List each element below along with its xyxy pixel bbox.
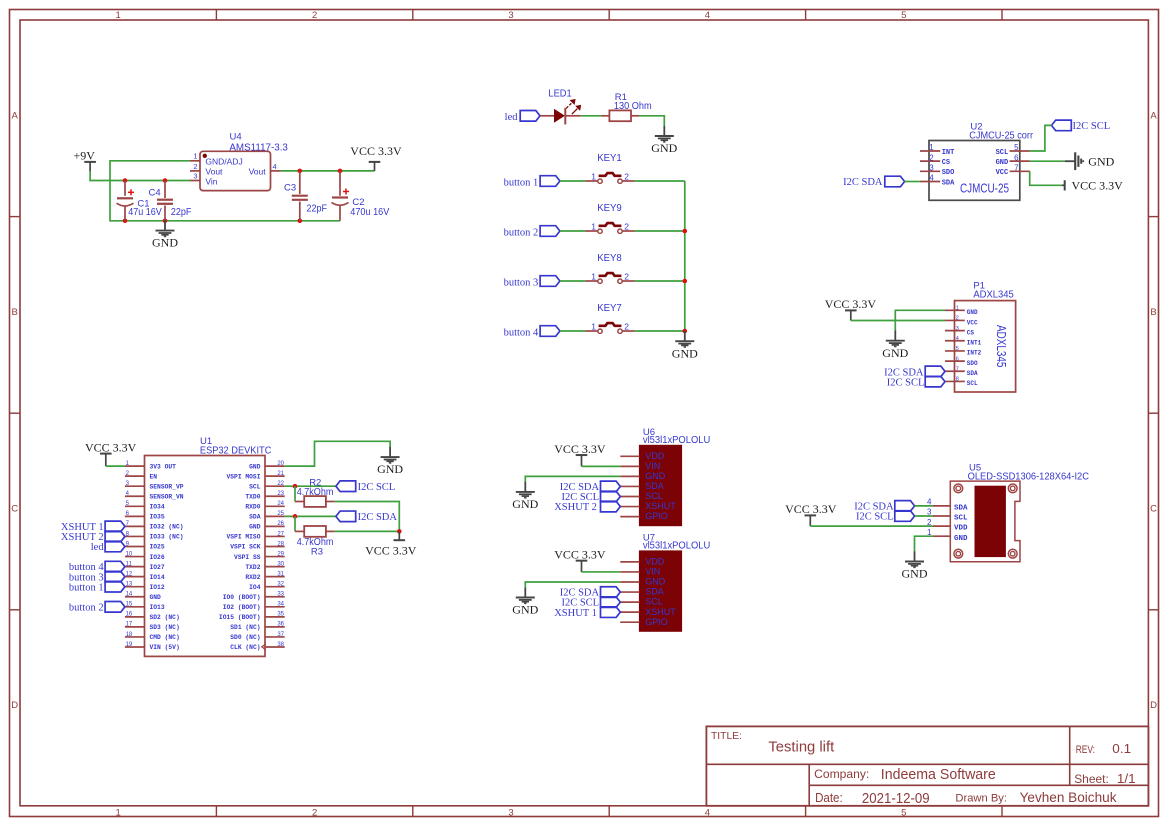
input flag led (U1) — [105, 541, 125, 552]
node pull-up VCC junction — [397, 529, 402, 534]
U5 pin 3 SCL — [927, 508, 968, 523]
U1 pin 17 SD3 (NC) — [125, 622, 180, 631]
U6 pin XSHUT — [620, 501, 676, 511]
P1 pin 4 INT1 — [945, 336, 982, 347]
wire I2C SCL to U2 pin 5 — [1030, 125, 1052, 151]
svg-text:SCL: SCL — [645, 597, 663, 607]
svg-text:3: 3 — [508, 10, 513, 21]
U1 pin 18 CMD (NC) — [125, 632, 180, 641]
svg-text:SCL: SCL — [967, 380, 978, 387]
title block frame — [706, 726, 1148, 805]
wire button 3 to KEY8 — [560, 280, 586, 282]
U5 mounting holes — [954, 484, 1017, 558]
flag I2C SDA (P1) — [925, 366, 945, 377]
VCC 3.3V supply (pull-ups) — [365, 531, 417, 557]
svg-text:VCC 3.3V: VCC 3.3V — [365, 544, 417, 558]
ground GND (U5) — [902, 551, 928, 580]
wire KEY8 to ground rail — [622, 280, 634, 282]
svg-text:led: led — [91, 542, 105, 553]
svg-text:button 2: button 2 — [504, 227, 539, 238]
frame row ticks — [10, 217, 1159, 610]
svg-text:XSHUT: XSHUT — [645, 501, 676, 511]
KEY1 pin numbers — [591, 172, 629, 182]
svg-text:20: 20 — [277, 461, 284, 467]
svg-text:GPIO: GPIO — [645, 511, 668, 521]
svg-text:IO4: IO4 — [249, 584, 261, 591]
svg-text:Vout: Vout — [249, 167, 267, 177]
U4 pin 1 marker dot — [203, 154, 207, 158]
svg-text:11: 11 — [126, 561, 133, 567]
svg-text:GND: GND — [150, 594, 162, 601]
U1 pin 22 SCL — [249, 481, 285, 490]
wire KEY7 to ground rail — [622, 330, 634, 332]
wire U1 SCL to I2C SCL flag — [285, 485, 336, 487]
ground GND (power section) — [152, 220, 178, 249]
U4 pin 3 stub — [190, 180, 200, 182]
wire LED1 cathode to R1 — [565, 115, 580, 117]
svg-text:I2C SCL: I2C SCL — [1073, 121, 1111, 132]
module U7 box — [640, 551, 682, 631]
wire KEY9 to ground rail — [622, 230, 634, 232]
wire U4 GND/ADJ to ground rail — [110, 161, 340, 221]
svg-text:VCC 3.3V: VCC 3.3V — [554, 442, 606, 456]
svg-text:4: 4 — [705, 807, 710, 818]
U1 pin 38 CLK (NC) — [230, 642, 284, 651]
svg-text:IO33 (NC): IO33 (NC) — [150, 534, 184, 541]
svg-text:2: 2 — [193, 162, 197, 171]
svg-text:Yevhen Boichuk: Yevhen Boichuk — [1020, 789, 1118, 805]
wire SDA to R3 — [294, 516, 296, 531]
svg-text:XSHUT 1: XSHUT 1 — [554, 608, 597, 619]
U4 pin labels — [205, 157, 266, 187]
svg-text:ADXL345: ADXL345 — [994, 325, 1008, 368]
node C4 top — [163, 178, 168, 183]
wire led flag to LED1 anode — [540, 115, 554, 117]
wire SCL to R2 — [294, 486, 296, 501]
svg-text:VSPI MISO: VSPI MISO — [226, 534, 260, 541]
svg-text:GND: GND — [645, 471, 666, 481]
svg-text:SDA: SDA — [645, 481, 664, 491]
svg-text:15: 15 — [126, 602, 133, 608]
U1 pin 24 RXD0 — [245, 501, 284, 510]
U2 pin 5 SCL — [996, 143, 1030, 157]
U2 pin 4 SDA — [920, 174, 955, 188]
svg-text:SDA: SDA — [645, 587, 664, 597]
svg-text:VIN: VIN — [645, 567, 660, 577]
switch KEY7 — [598, 323, 622, 333]
wire U1 GND pin 20 to ground — [285, 441, 390, 466]
node C3 bottom — [298, 219, 303, 224]
wire R1 to ground — [631, 115, 639, 117]
svg-text:5: 5 — [901, 10, 906, 21]
svg-text:C: C — [11, 504, 18, 515]
svg-text:VSPI MOSI: VSPI MOSI — [226, 473, 260, 480]
svg-text:IO27: IO27 — [150, 564, 165, 571]
svg-text:30: 30 — [277, 561, 284, 567]
svg-text:47u 16V: 47u 16V — [128, 207, 162, 218]
KEY7 pin numbers — [591, 322, 629, 332]
svg-text:2: 2 — [624, 172, 629, 182]
node C1 top — [123, 178, 128, 183]
svg-text:GND: GND — [996, 159, 1009, 167]
U1 pin 20 GND — [249, 461, 285, 470]
svg-text:RXD0: RXD0 — [245, 504, 260, 511]
U6 pin GND — [620, 471, 665, 481]
U1 pin 23 TXD0 — [245, 491, 284, 500]
svg-text:XSHUT: XSHUT — [645, 607, 676, 617]
input flag button 2 — [540, 226, 560, 237]
node C3 top — [298, 169, 303, 174]
svg-text:22pF: 22pF — [307, 203, 328, 214]
svg-text:GND: GND — [954, 535, 968, 543]
svg-text:GND: GND — [882, 346, 908, 360]
svg-text:button 1: button 1 — [504, 177, 539, 188]
svg-text:CJMCU-25 corr: CJMCU-25 corr — [969, 131, 1033, 142]
wire VCC to P1 VCC pin — [851, 320, 945, 322]
module U2 box — [929, 141, 1020, 201]
node C1 bottom — [123, 219, 128, 224]
svg-text:Sheet:: Sheet: — [1074, 772, 1109, 786]
node key rail junction 3 — [683, 329, 688, 334]
svg-text:VSPI SCK: VSPI SCK — [230, 544, 260, 551]
wire U5 GND to ground — [915, 536, 934, 551]
svg-text:VCC 3.3V: VCC 3.3V — [825, 297, 877, 311]
svg-text:19: 19 — [126, 642, 133, 648]
ground GND (U6) — [512, 482, 538, 511]
svg-text:VDD: VDD — [645, 557, 665, 567]
wire I2C SDA to U2 pin 4 — [905, 181, 920, 183]
svg-text:KEY8: KEY8 — [597, 253, 622, 264]
wire VCC to U5 VDD — [810, 525, 933, 527]
svg-text:18: 18 — [126, 632, 133, 638]
svg-text:CJMCU-25: CJMCU-25 — [960, 181, 1009, 196]
U1 pin 25 SDA — [249, 511, 285, 520]
P1 pin 3 CS — [945, 326, 974, 337]
VCC 3.3V bar (U2) — [1062, 178, 1123, 192]
svg-text:GND: GND — [512, 603, 538, 617]
wire U7 GND to ground — [525, 582, 620, 587]
U1 pin 37 SD0 (NC) — [230, 632, 284, 641]
wire R2 to VCC rail — [326, 501, 335, 503]
svg-text:B: B — [1150, 307, 1156, 318]
U1 pin 38 clock marker — [262, 644, 266, 650]
flag XSHUT 1 (U7) — [601, 607, 621, 618]
flag I2C SDA (U5) — [895, 501, 915, 512]
svg-text:5: 5 — [1014, 143, 1019, 152]
svg-text:AMS1117-3.3: AMS1117-3.3 — [229, 142, 288, 153]
svg-text:IO34: IO34 — [150, 504, 165, 511]
svg-text:VCC 3.3V: VCC 3.3V — [1072, 178, 1124, 192]
KEY9 pin numbers — [591, 222, 629, 232]
svg-text:VCC 3.3V: VCC 3.3V — [85, 441, 137, 455]
svg-text:Indeema Software: Indeema Software — [881, 766, 996, 783]
U5 pin 2 VDD — [927, 518, 968, 533]
svg-text:Testing lift: Testing lift — [768, 740, 834, 756]
P1 pin 5 INT2 — [945, 346, 982, 357]
svg-text:IO13: IO13 — [150, 604, 165, 611]
U7 pin GPIO — [620, 617, 667, 627]
svg-text:RXD2: RXD2 — [245, 574, 260, 581]
svg-text:2: 2 — [624, 222, 629, 232]
flag I2C SCL (U2) — [1052, 120, 1072, 131]
switch KEY9 — [598, 223, 622, 233]
wire U1 SDA to I2C SDA flag — [285, 515, 336, 517]
svg-text:8: 8 — [956, 377, 959, 383]
wire KEY1 to ground rail — [622, 180, 634, 182]
svg-text:VCC: VCC — [967, 319, 978, 326]
U6 pin SDA — [620, 481, 663, 491]
U1 pin 33 IO0 (BOOT) — [223, 592, 285, 601]
svg-text:SCL: SCL — [996, 149, 1009, 157]
capacitor C4 — [157, 181, 173, 221]
svg-text:4: 4 — [929, 174, 934, 183]
svg-text:Drawn By:: Drawn By: — [955, 792, 1007, 804]
input flag button 1 (U1) — [105, 581, 125, 592]
svg-text:IO0 (BOOT): IO0 (BOOT) — [223, 594, 261, 601]
U7 pin SDA — [620, 587, 663, 597]
svg-text:I2C SDA: I2C SDA — [358, 512, 398, 523]
svg-text:SDO: SDO — [942, 169, 955, 177]
svg-text:29: 29 — [277, 551, 284, 557]
svg-text:35: 35 — [277, 612, 284, 618]
svg-text:A: A — [12, 110, 19, 121]
svg-text:6: 6 — [1014, 153, 1019, 162]
svg-text:GND: GND — [902, 567, 928, 581]
svg-text:SENSOR_VP: SENSOR_VP — [150, 483, 184, 490]
svg-text:4: 4 — [273, 162, 277, 171]
svg-text:4: 4 — [705, 10, 710, 21]
VCC 3.3V supply (P1) — [825, 297, 877, 321]
svg-text:3V3 OUT: 3V3 OUT — [150, 463, 177, 470]
svg-text:Vin: Vin — [205, 177, 217, 187]
svg-text:27: 27 — [277, 531, 284, 537]
svg-text:GND: GND — [377, 462, 403, 476]
svg-text:1: 1 — [956, 306, 959, 312]
svg-text:SCL: SCL — [954, 515, 968, 523]
module U1 box — [145, 456, 266, 657]
svg-text:2: 2 — [624, 322, 629, 332]
flag I2C SDA (U2) — [885, 176, 905, 187]
U5 screen area — [975, 486, 1005, 556]
svg-text:23: 23 — [277, 491, 284, 497]
svg-text:1: 1 — [591, 322, 596, 332]
svg-text:vl53l1xPOLOLU: vl53l1xPOLOLU — [643, 540, 710, 551]
svg-text:5: 5 — [901, 807, 906, 818]
U5 pin 1 GND — [927, 528, 968, 543]
svg-text:26: 26 — [277, 521, 284, 527]
svg-text:Vout: Vout — [205, 167, 223, 177]
svg-text:I2C SCL: I2C SCL — [856, 512, 894, 523]
LED LED1 — [554, 100, 580, 125]
VCC 3.3V supply (U5) — [785, 502, 837, 526]
node SCL junction — [293, 484, 298, 489]
svg-text:1: 1 — [116, 807, 121, 818]
svg-text:CS: CS — [942, 159, 950, 167]
wire button 2 to KEY9 — [560, 230, 586, 232]
svg-text:VCC: VCC — [996, 169, 1009, 177]
svg-text:ADXL345: ADXL345 — [973, 290, 1014, 301]
U1 pin 8 IO33 (NC) — [125, 531, 184, 540]
svg-text:GND: GND — [249, 463, 261, 470]
svg-text:C3: C3 — [284, 183, 296, 194]
svg-text:10: 10 — [126, 551, 133, 557]
svg-text:SD2 (NC): SD2 (NC) — [150, 614, 180, 621]
frame column numbers — [116, 10, 907, 818]
wire U4 Vout to VCC rail — [281, 170, 375, 172]
svg-text:470u 16V: 470u 16V — [350, 207, 389, 218]
U1 pin 12 IO14 — [125, 571, 165, 580]
svg-text:CLK (NC): CLK (NC) — [230, 644, 260, 651]
svg-text:24: 24 — [277, 501, 284, 507]
wire R3 to VCC rail — [326, 530, 335, 532]
resistor R2 — [304, 496, 326, 507]
VCC 3.3V supply (U7) — [554, 547, 606, 572]
U1 pin 35 IO15 (BOOT) — [219, 612, 285, 621]
U1 pin 19 VIN (5V) — [125, 642, 180, 651]
input flag XSHUT 1 (U1) — [105, 521, 125, 532]
svg-text:SENSOR_VN: SENSOR_VN — [150, 493, 184, 500]
switch KEY1 — [598, 173, 622, 183]
U7 pin VDD — [620, 557, 664, 567]
svg-text:CMD (NC): CMD (NC) — [150, 634, 180, 641]
wire button 1 to KEY1 — [560, 180, 586, 182]
U1 pin 36 SD1 (NC) — [230, 622, 284, 631]
svg-text:4: 4 — [956, 336, 959, 342]
frame column ticks — [216, 10, 1002, 817]
svg-text:button 3: button 3 — [504, 277, 539, 288]
ground GND (keys) — [672, 331, 698, 360]
U7 pin SCL — [620, 597, 662, 607]
svg-text:XSHUT 2: XSHUT 2 — [554, 502, 597, 513]
ground GND (U7) — [512, 587, 538, 616]
svg-text:led: led — [505, 112, 519, 123]
svg-text:6: 6 — [956, 356, 959, 362]
P1 pin 8 SCL — [945, 377, 978, 388]
wire +9V to U4 Vin — [90, 171, 190, 181]
P1 pin 2 VCC — [945, 316, 978, 327]
P1 pin 1 GND — [945, 306, 978, 317]
svg-text:Date:: Date: — [815, 791, 843, 805]
regulator U4 box — [200, 151, 271, 190]
U7 pin XSHUT — [620, 607, 676, 617]
svg-text:7: 7 — [1014, 163, 1019, 172]
svg-text:28: 28 — [277, 541, 284, 547]
svg-text:INT2: INT2 — [967, 350, 982, 357]
U1 pin 11 IO27 — [125, 561, 165, 570]
ground GND (U2, sideways) — [1065, 152, 1115, 170]
U1 pin 5 IO34 — [125, 501, 165, 510]
svg-text:VDD: VDD — [645, 451, 665, 461]
wire U6 GND to ground — [525, 476, 620, 481]
U1 pin 14 GND — [125, 592, 161, 601]
flag I2C SCL (U7) — [601, 597, 621, 608]
svg-text:SDA: SDA — [249, 514, 261, 521]
svg-text:2: 2 — [312, 807, 317, 818]
svg-text:GND: GND — [249, 524, 261, 531]
svg-text:SD0 (NC): SD0 (NC) — [230, 634, 260, 641]
svg-text:I2C SDA: I2C SDA — [843, 177, 883, 188]
input flag button 4 — [540, 326, 560, 337]
svg-text:130 Ohm: 130 Ohm — [614, 101, 652, 112]
svg-text:button 2: button 2 — [69, 602, 104, 613]
svg-text:SCL: SCL — [645, 491, 663, 501]
svg-text:TITLE:: TITLE: — [711, 731, 742, 742]
input flag button 3 (U1) — [105, 571, 125, 582]
flag XSHUT 2 (U6) — [601, 501, 621, 512]
flag I2C SCL (U5) — [895, 511, 915, 522]
frame row letters — [11, 110, 1157, 711]
P1 pin 6 SDO — [945, 356, 978, 367]
svg-text:IO25: IO25 — [150, 544, 165, 551]
svg-text:5: 5 — [956, 346, 959, 352]
U1 pin 32 IO4 — [249, 582, 285, 591]
svg-text:SDA: SDA — [954, 505, 968, 513]
U1 pin 1 3V3 OUT — [125, 461, 176, 470]
svg-text:25: 25 — [277, 511, 284, 517]
svg-text:IO2 (BOOT): IO2 (BOOT) — [223, 604, 261, 611]
svg-text:VCC 3.3V: VCC 3.3V — [554, 547, 606, 561]
U1 pin 16 SD2 (NC) — [125, 612, 180, 621]
svg-text:1: 1 — [116, 10, 121, 21]
U1 pin 6 IO35 — [125, 511, 165, 520]
module U5 outline — [950, 481, 1020, 562]
input flag XSHUT 2 (U1) — [105, 531, 125, 542]
ground GND (LED) — [651, 126, 677, 155]
svg-text:1: 1 — [193, 152, 197, 161]
svg-text:GND: GND — [967, 309, 978, 316]
U4 pin 2 stub — [190, 170, 200, 172]
U1 pin 15 IO13 — [125, 602, 165, 611]
svg-text:VDD: VDD — [954, 525, 968, 533]
P1 pin 7 SDA — [945, 366, 978, 377]
svg-text:KEY9: KEY9 — [597, 203, 622, 214]
svg-text:button 1: button 1 — [69, 582, 104, 593]
svg-text:SDA: SDA — [942, 179, 955, 187]
svg-text:+9V: +9V — [74, 149, 96, 163]
U4 pin 1 stub — [190, 160, 200, 162]
U2 pin 7 VCC — [996, 163, 1030, 177]
svg-text:TXD2: TXD2 — [245, 564, 260, 571]
U1 pin 7 IO32 (NC) — [125, 521, 184, 530]
svg-text:33: 33 — [277, 592, 284, 598]
svg-text:7: 7 — [956, 366, 959, 372]
svg-text:VCC 3.3V: VCC 3.3V — [350, 144, 402, 158]
svg-text:2: 2 — [624, 272, 629, 282]
wire VCC to U1 3V3 OUT — [106, 465, 125, 467]
wire VCC to U7 VIN — [582, 571, 621, 573]
svg-text:34: 34 — [277, 602, 284, 608]
svg-text:I2C SCL: I2C SCL — [887, 378, 925, 389]
node C4 bottom — [163, 219, 168, 224]
U1 pin 34 IO2 (BOOT) — [223, 602, 285, 611]
U1 pin 2 EN — [125, 471, 157, 480]
svg-text:3: 3 — [193, 171, 197, 180]
svg-text:GND: GND — [512, 497, 538, 511]
ground GND (P1) — [882, 331, 908, 360]
svg-text:GND: GND — [645, 577, 666, 587]
svg-text:1: 1 — [591, 272, 596, 282]
svg-text:SDO: SDO — [967, 360, 978, 367]
svg-text:IO35: IO35 — [150, 514, 165, 521]
module P1 box — [955, 301, 1016, 392]
svg-text:2: 2 — [956, 316, 959, 322]
U1 pin 13 IO12 — [125, 582, 165, 591]
svg-text:A: A — [1150, 110, 1157, 121]
U6 pin VDD — [620, 451, 664, 461]
svg-text:D: D — [1150, 700, 1157, 711]
svg-text:36: 36 — [277, 622, 284, 628]
svg-text:38: 38 — [277, 642, 284, 648]
